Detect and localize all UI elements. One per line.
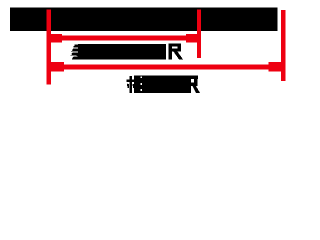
label text 2 body (dense kanji blob) bbox=[141, 75, 187, 93]
marker line B (middle red vertical) bbox=[197, 10, 201, 59]
label text 2 last char (R-like glyph) bbox=[187, 75, 200, 93]
label text 1 first-char strokes bbox=[70, 44, 78, 59]
arrowhead D2 right bbox=[269, 62, 282, 72]
label text 2 first char (tree radical) bbox=[127, 75, 142, 93]
arrowhead D2 left bbox=[51, 62, 64, 72]
marker line C (right red vertical) bbox=[281, 10, 286, 81]
timeline bar bbox=[10, 8, 278, 31]
label text 1 last char (R-like glyph) bbox=[169, 44, 184, 60]
marker line A (left red vertical) bbox=[47, 9, 52, 84]
arrowhead D1 left bbox=[51, 34, 62, 43]
dimension line D2 bbox=[51, 64, 281, 69]
dimension line D1 bbox=[51, 35, 197, 40]
arrowhead D1 right bbox=[186, 34, 197, 43]
label text 1 body (dense kanji blob) bbox=[78, 44, 166, 60]
speckle gap after first char of text 2 bbox=[141, 77, 142, 91]
